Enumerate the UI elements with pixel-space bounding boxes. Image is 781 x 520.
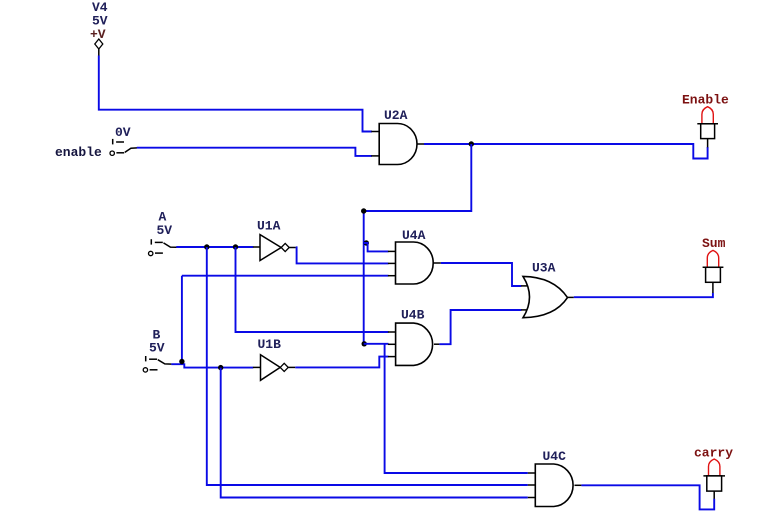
junction A net 1 [204, 244, 209, 249]
junction B net at U4C branch [218, 365, 223, 370]
svg-text:U4A: U4A [402, 228, 426, 243]
switch B [143, 328, 171, 373]
wire U1B output to U4B input 3 [295, 357, 388, 368]
LED probe carry [694, 446, 733, 499]
svg-text:U1A: U1A [257, 219, 281, 234]
wire V4 to U2A input 1 [99, 56, 372, 132]
wire A net to U4B input 1 [236, 247, 389, 332]
svg-text:U4B: U4B [401, 308, 425, 323]
wire B net to U4A input 3 [182, 275, 389, 277]
pin stub U2A input 2 [371, 155, 379, 157]
svg-text:5V: 5V [157, 223, 173, 238]
svg-text:U4C: U4C [543, 449, 567, 464]
and-gate U4B [388, 308, 440, 366]
wire U1A output to U4A input 2 [296, 247, 389, 263]
wire enable switch to U2A input 2 [137, 148, 372, 156]
wire U4B output to U3A input 2 [439, 310, 521, 344]
wire enable net down to U4C input 1 [385, 344, 528, 473]
junction enable to U4A [364, 240, 369, 245]
wire enable net down to gates [364, 144, 472, 344]
wire U4A input 3 down to B row [181, 276, 183, 365]
wire U2A output to Enable LED [424, 144, 708, 159]
junction on enable net [469, 141, 474, 146]
junction B net at U4A branch [179, 359, 184, 364]
inverter U1B [253, 337, 295, 380]
svg-text:U1B: U1B [258, 337, 282, 352]
LED probe Sum [702, 236, 726, 293]
svg-text:U3A: U3A [532, 261, 556, 276]
wire A net down to U4C input 2 [207, 247, 528, 485]
wire enable net to U4B input 2 [364, 343, 389, 345]
svg-text:Sum: Sum [702, 236, 726, 251]
inverter U1A [253, 219, 296, 261]
svg-text:enable: enable [55, 145, 102, 160]
svg-text:Enable: Enable [682, 93, 729, 108]
junction A net 2 [233, 244, 238, 249]
svg-text:0V: 0V [115, 125, 131, 140]
wire enable net to U4A input 1 [364, 243, 389, 251]
switch enable [55, 125, 137, 160]
svg-text:5V: 5V [149, 341, 165, 356]
junction enable to U4B [362, 341, 367, 346]
svg-text:carry: carry [694, 446, 733, 461]
or-gate U3A [521, 261, 574, 318]
wire U4A output to U3A input 1 [441, 263, 521, 286]
power source V4 [90, 0, 108, 56]
wire A to U1A input [176, 246, 253, 248]
LED probe Enable [682, 93, 729, 148]
and-gate U2A [379, 108, 424, 165]
pin stub U2A input 1 [371, 131, 379, 133]
switch A [149, 210, 177, 256]
wire U4C output to carry LED [581, 485, 714, 509]
junction enable net corner [361, 208, 366, 213]
wire U3A output to Sum LED [574, 293, 713, 297]
and-gate U4C [528, 449, 582, 507]
svg-text:U2A: U2A [384, 108, 408, 123]
wire B switch to U1B input [171, 364, 253, 367]
and-gate U4A [388, 228, 441, 284]
wire B net down to U4C input 3 [221, 368, 528, 498]
